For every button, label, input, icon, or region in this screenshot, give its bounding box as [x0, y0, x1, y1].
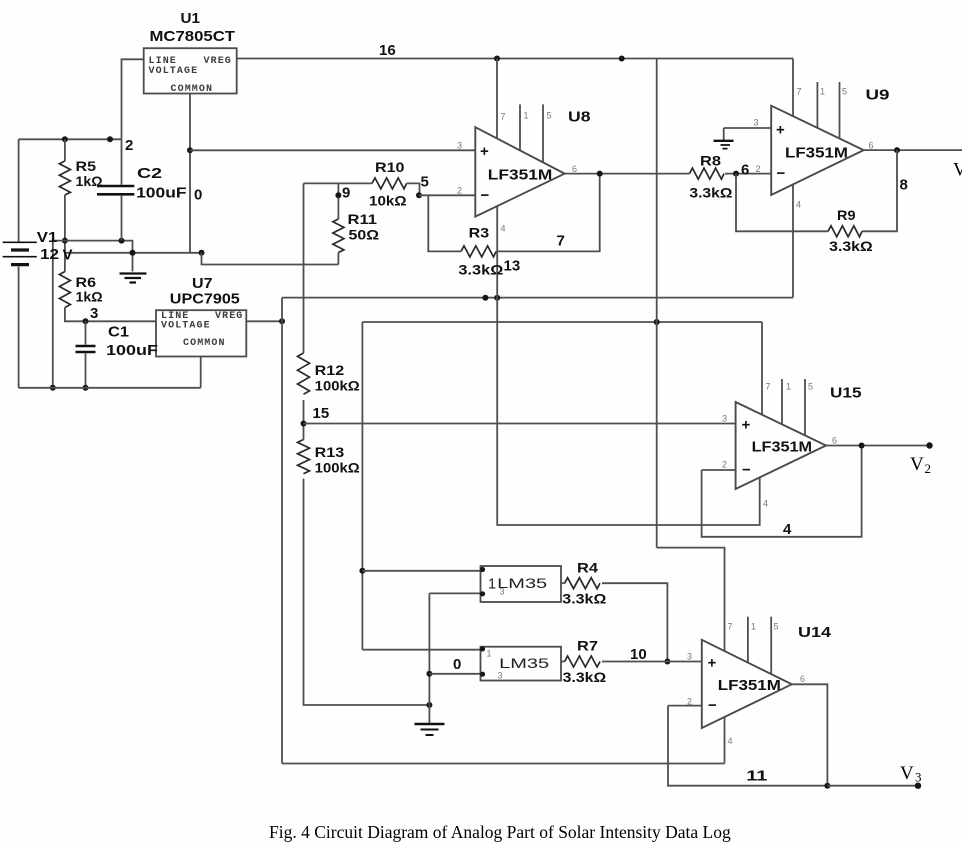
- resistor R7 zigzag: [565, 656, 600, 667]
- voltage regulator U1 box: [144, 48, 237, 93]
- wire jog from divider node to lower rail: [53, 241, 65, 388]
- wire U9 plus input from ground: [724, 127, 772, 129]
- wire U14 pin5 stub: [770, 617, 772, 676]
- wire U9 pin1 stub: [816, 82, 818, 129]
- junction net16 extra dot: [619, 56, 625, 62]
- svg-text:LF351M: LF351M: [785, 145, 848, 162]
- wire U15 pin7 stub from plus rail: [761, 322, 763, 416]
- svg-text:R10: R10: [375, 159, 405, 175]
- svg-text:0: 0: [194, 187, 202, 204]
- wire battery negative lead: [18, 267, 20, 388]
- svg-text:2: 2: [722, 460, 727, 470]
- junction C1 bottom on lower rail: [83, 385, 89, 391]
- terminal V2 dot: [926, 442, 932, 448]
- pin dot LM35 1 pin1: [480, 567, 485, 572]
- capacitor C1 plates: [76, 346, 96, 352]
- wire node 5 feedback drop to R3: [428, 195, 461, 251]
- wire plus 5V drop column from net 16: [656, 59, 658, 548]
- svg-text:13: 13: [504, 258, 521, 275]
- resistor R8 zigzag: [689, 168, 724, 179]
- svg-text:R11: R11: [348, 211, 378, 227]
- svg-text:+: +: [480, 143, 489, 160]
- battery V1 plate long: [3, 256, 37, 258]
- wire R6 bottom to U7 input node 3: [65, 308, 156, 322]
- junction C1 top on node 3 row: [83, 318, 89, 324]
- svg-text:3.3kΩ: 3.3kΩ: [689, 185, 732, 201]
- junction node 10: [664, 659, 670, 665]
- op-amp U14 triangle: [702, 640, 792, 728]
- junction row C to 0 jog: [199, 250, 205, 256]
- svg-text:V: V: [953, 160, 962, 181]
- wire LM35 supply column: [361, 322, 363, 650]
- svg-text:LM35: LM35: [497, 575, 547, 591]
- svg-text:7: 7: [797, 87, 802, 97]
- svg-text:6: 6: [800, 674, 805, 684]
- junction spurious on minus rail: [482, 295, 488, 301]
- resistor R13 vertical zigzag: [298, 440, 310, 474]
- resistor R3 zigzag: [461, 246, 496, 257]
- wire R11 top stub: [337, 183, 339, 219]
- svg-text:3: 3: [498, 671, 503, 681]
- svg-text:7: 7: [728, 622, 733, 632]
- svg-text:6: 6: [572, 164, 577, 174]
- junction node 2 at R5 top: [62, 136, 68, 142]
- svg-text:R9: R9: [837, 207, 856, 223]
- wire LM35 2 pin1 supply row: [362, 649, 480, 651]
- junction U8 pin4 column on minus rail: [494, 295, 500, 301]
- svg-text:16: 16: [379, 42, 396, 59]
- svg-text:3: 3: [457, 141, 462, 151]
- svg-text:5: 5: [808, 382, 813, 392]
- wire R12 R13 column from node 9 corner: [303, 183, 305, 353]
- svg-text:R12: R12: [315, 362, 345, 378]
- svg-text:1kΩ: 1kΩ: [76, 173, 103, 189]
- junction node 0 to U8 plus row: [187, 147, 193, 153]
- wire U8 pin4 column down to U15 pin4 row: [497, 205, 760, 525]
- resistor R10 zigzag: [372, 178, 407, 189]
- wire U15 minus input row: [702, 469, 736, 471]
- svg-text:+: +: [742, 417, 751, 434]
- svg-text:R7: R7: [577, 638, 598, 654]
- svg-text:U1: U1: [181, 10, 201, 27]
- wire R5 bottom to R6 top through node: [64, 195, 66, 272]
- svg-text:V: V: [910, 454, 924, 475]
- resistor R11 vertical zigzag: [333, 219, 344, 253]
- pin dot LM35 2 pin1: [480, 646, 485, 651]
- wire U8 output row: [565, 173, 690, 175]
- svg-text:3: 3: [915, 770, 922, 785]
- svg-text:7: 7: [766, 382, 771, 392]
- junction ground stem on row C: [130, 250, 136, 256]
- wire U8 plus input row from node 0: [190, 149, 475, 151]
- svg-text:7: 7: [557, 233, 565, 250]
- svg-text:U14: U14: [798, 624, 832, 641]
- wire battery positive lead: [18, 139, 20, 241]
- svg-text:COMMON: COMMON: [171, 84, 214, 95]
- wire row B divider to C2 bottom and ground jog: [65, 241, 133, 272]
- svg-text:10kΩ: 10kΩ: [369, 193, 407, 209]
- svg-text:100kΩ: 100kΩ: [315, 378, 360, 394]
- svg-text:0: 0: [453, 656, 461, 673]
- svg-text:11: 11: [746, 768, 767, 785]
- wire U14 pin1 stub: [747, 617, 749, 664]
- wire R9 right lead up to output: [862, 150, 897, 231]
- svg-text:2: 2: [925, 461, 932, 476]
- svg-text:1: 1: [786, 382, 791, 392]
- wire U15 feedback loop: [702, 446, 862, 537]
- svg-text:−: −: [708, 697, 717, 714]
- wire U15 pin5 stub: [804, 379, 806, 437]
- wire U9 pin7 stub from net16 corner: [792, 59, 794, 118]
- svg-text:+: +: [776, 122, 785, 139]
- svg-text:3: 3: [500, 587, 505, 597]
- wire node 5 to U8 minus input: [419, 194, 475, 196]
- pin dot LM35 1 pin3: [480, 591, 485, 596]
- wire R4 left lead: [561, 582, 565, 584]
- wire R10 right lead to node 5: [407, 183, 420, 195]
- wire node 15 row to U15 plus input: [304, 423, 736, 425]
- svg-text:3.3kΩ: 3.3kΩ: [458, 262, 503, 278]
- wire R13 bottom to analog ground row: [304, 479, 430, 705]
- svg-text:3: 3: [722, 414, 727, 424]
- svg-text:4: 4: [501, 224, 506, 234]
- wire net 7 feedback row R3 to U8 output: [497, 174, 600, 252]
- junction plus rail column crossing: [654, 319, 660, 325]
- wire node 9 row to R10: [304, 182, 373, 184]
- junction R5/R6 divider node: [62, 238, 68, 244]
- svg-text:4: 4: [728, 736, 733, 746]
- temperature sensor LM35 box 2: [481, 647, 562, 681]
- wire 0 jog down to R11 bottom row: [202, 253, 339, 265]
- svg-text:1: 1: [488, 577, 496, 593]
- junction analog ground row: [426, 702, 432, 708]
- svg-text:1kΩ: 1kΩ: [76, 289, 103, 305]
- wire C1 top lead: [85, 321, 87, 344]
- svg-text:LF351M: LF351M: [488, 167, 553, 184]
- svg-text:C1: C1: [108, 324, 129, 341]
- wire U15 pin1 stub: [781, 379, 783, 426]
- svg-text:100uF: 100uF: [136, 185, 187, 202]
- svg-text:VOLTAGE: VOLTAGE: [161, 321, 211, 332]
- resistor R9 zigzag: [828, 226, 862, 237]
- svg-text:UPC7905: UPC7905: [170, 291, 240, 308]
- wire minus 5V row to U9 pin4: [282, 297, 793, 299]
- svg-text:4: 4: [783, 521, 792, 538]
- battery V1 plate short thick bottom: [11, 263, 29, 266]
- wire LM35 1 pin1 supply row: [362, 570, 480, 572]
- wire U7 COMMON lead: [200, 357, 202, 388]
- wire U14 minus input row: [668, 705, 702, 707]
- svg-text:50Ω: 50Ω: [349, 227, 380, 243]
- wire U7 VREG output to minus rail column: [246, 320, 282, 322]
- wire node 2 row battery plus to C2 top: [19, 138, 122, 140]
- svg-text:V: V: [900, 763, 914, 784]
- svg-text:R4: R4: [577, 560, 598, 576]
- svg-text:2: 2: [457, 186, 462, 196]
- junction node 9 on R11 stub: [335, 192, 341, 198]
- svg-text:4: 4: [796, 200, 801, 210]
- junction net 11 output: [824, 783, 830, 789]
- wire U8 pin7 column: [496, 59, 498, 141]
- svg-text:1: 1: [487, 649, 492, 659]
- op-amp U15 triangle: [736, 402, 826, 489]
- svg-text:U9: U9: [866, 87, 890, 104]
- pin dot LM35 2 pin3: [480, 672, 485, 677]
- svg-text:LF351M: LF351M: [718, 677, 781, 694]
- wire node 10 row to U14 plus input: [602, 661, 702, 663]
- junction U9 output feedback: [894, 147, 900, 153]
- svg-text:MC7805CT: MC7805CT: [150, 28, 236, 45]
- wire U9 feedback loop with R9: [736, 174, 828, 232]
- resistor R5 vertical zigzag: [64, 139, 66, 161]
- junction C2 bottom: [119, 238, 125, 244]
- svg-text:5: 5: [774, 622, 779, 632]
- wire U1 COMMON column node 0: [189, 92, 191, 253]
- junction node 0 row on ground column: [426, 671, 432, 677]
- battery V1 plate short thick: [11, 248, 29, 251]
- svg-text:Fig. 4 Circuit Diagram of Anal: Fig. 4 Circuit Diagram of Analog Part of…: [269, 822, 731, 842]
- svg-text:3.3kΩ: 3.3kΩ: [563, 669, 607, 685]
- svg-text:VOLTAGE: VOLTAGE: [149, 66, 199, 77]
- svg-text:9: 9: [342, 185, 350, 202]
- junction on node 2 row: [107, 136, 113, 142]
- wire U15 output row to V2 terminal: [826, 445, 930, 447]
- svg-text:LF351M: LF351M: [752, 439, 813, 456]
- junction U8 pin7 on net 16: [494, 56, 500, 62]
- svg-text:5: 5: [421, 174, 429, 191]
- wire R7 left lead: [561, 661, 565, 663]
- junction node 15: [301, 421, 307, 427]
- temperature sensor LM35 box 1: [481, 566, 562, 602]
- junction U8 output feedback: [597, 171, 603, 177]
- svg-text:COMMON: COMMON: [183, 338, 226, 349]
- resistor R4 zigzag: [565, 578, 600, 589]
- wire U1 input lead from node 2: [122, 59, 144, 139]
- junction U15 output feedback: [859, 443, 865, 449]
- svg-text:8: 8: [900, 177, 908, 194]
- resistor R6 vertical zigzag: [59, 272, 70, 308]
- svg-text:R8: R8: [700, 153, 721, 169]
- wire U14 feedback loop: [668, 706, 827, 786]
- capacitor C2 plates: [97, 186, 134, 194]
- wire R8 to U9 minus input node 6: [725, 173, 771, 175]
- svg-text:U8: U8: [568, 109, 591, 126]
- wire plus rail jog to U14 pin7: [657, 548, 725, 651]
- svg-text:VREG: VREG: [215, 311, 243, 322]
- ground symbol near C2: [120, 274, 147, 283]
- svg-text:−: −: [742, 462, 751, 479]
- op-amp U9 triangle: [771, 106, 864, 195]
- wire C2 top lead: [121, 139, 123, 184]
- wire U9 pin5 stub: [839, 82, 841, 140]
- junction VREG to minus rail: [279, 318, 285, 324]
- wire C2 bottom lead: [121, 196, 123, 241]
- svg-text:3: 3: [754, 118, 759, 128]
- junction LM35 1 supply tap: [359, 568, 365, 574]
- svg-text:R3: R3: [469, 225, 490, 241]
- svg-text:7: 7: [501, 112, 506, 122]
- svg-text:3: 3: [687, 652, 692, 662]
- wire lower rail row: [19, 387, 201, 389]
- wire minus rail bottom row to U14 pin4: [282, 763, 725, 765]
- svg-text:3: 3: [90, 305, 98, 322]
- svg-text:VREG: VREG: [204, 56, 232, 67]
- wire R12 bottom to node 15: [303, 400, 305, 440]
- wire net 11 row to V3 terminal: [827, 785, 918, 787]
- battery V1 plate long top: [3, 241, 37, 243]
- svg-text:6: 6: [832, 436, 837, 446]
- wire ground column LM35: [428, 593, 430, 723]
- svg-text:2: 2: [756, 164, 761, 174]
- svg-text:V: V: [63, 247, 73, 264]
- wire U8 pin1 stub: [519, 104, 521, 152]
- wire U9 output row to V1 terminal: [864, 149, 962, 151]
- svg-text:1: 1: [751, 622, 756, 632]
- wire +5V rail net 16 from U1 VREG to U9: [236, 58, 794, 60]
- wire C1 bottom lead: [85, 353, 87, 388]
- svg-text:R5: R5: [76, 158, 97, 174]
- svg-text:2: 2: [125, 137, 133, 154]
- svg-text:100uF: 100uF: [106, 342, 158, 359]
- svg-text:100kΩ: 100kΩ: [315, 460, 360, 476]
- svg-text:−: −: [481, 187, 490, 204]
- wire node 0 row to LM35 2 pin3: [429, 673, 480, 675]
- ground symbol analog: [415, 723, 445, 725]
- svg-text:U7: U7: [192, 275, 213, 292]
- svg-text:3.3kΩ: 3.3kΩ: [562, 591, 606, 607]
- svg-text:LM35: LM35: [499, 655, 549, 671]
- terminal V3 dot: [915, 783, 921, 789]
- wire R4 output over to node 10: [602, 583, 667, 661]
- svg-text:6: 6: [869, 141, 874, 151]
- svg-text:+: +: [708, 655, 717, 672]
- svg-text:15: 15: [313, 405, 330, 422]
- junction node 5: [416, 192, 422, 198]
- wire U14 pin4 stub to minus rail row: [724, 715, 726, 764]
- voltage regulator U7 box: [156, 310, 246, 356]
- svg-text:1: 1: [524, 111, 529, 121]
- wire plus 5V distribution row to U15 pin 7: [362, 321, 762, 323]
- svg-text:10: 10: [630, 646, 647, 663]
- wire row C ground reference to 0-node column: [65, 252, 202, 254]
- svg-text:R13: R13: [315, 444, 345, 460]
- svg-text:5: 5: [842, 87, 847, 97]
- svg-text:6: 6: [741, 162, 749, 179]
- op-amp U8 triangle: [475, 127, 564, 216]
- ground symbol at U9 plus input: [723, 128, 725, 140]
- svg-text:U15: U15: [830, 385, 862, 402]
- wire R11 bottom lead: [337, 253, 339, 265]
- junction node 6: [733, 171, 739, 177]
- junction lower rail: [50, 385, 56, 391]
- svg-text:5: 5: [547, 111, 552, 121]
- wire U8 pin5 stub: [542, 104, 544, 164]
- resistor R12 vertical zigzag: [298, 353, 310, 394]
- svg-text:1: 1: [820, 87, 825, 97]
- svg-text:3.3kΩ: 3.3kΩ: [829, 238, 873, 254]
- svg-text:C2: C2: [137, 165, 162, 182]
- svg-text:V1: V1: [37, 229, 58, 246]
- svg-text:2: 2: [687, 697, 692, 707]
- svg-text:4: 4: [763, 499, 768, 509]
- wire U9 pin4 column to minus rail: [792, 183, 794, 298]
- wire U14 output down to net 11: [792, 684, 828, 785]
- wire LM35 1 pin3 row to ground column: [429, 592, 480, 594]
- svg-text:−: −: [777, 165, 786, 182]
- svg-text:12: 12: [40, 246, 59, 263]
- wire minus 5V column from row: [281, 298, 283, 764]
